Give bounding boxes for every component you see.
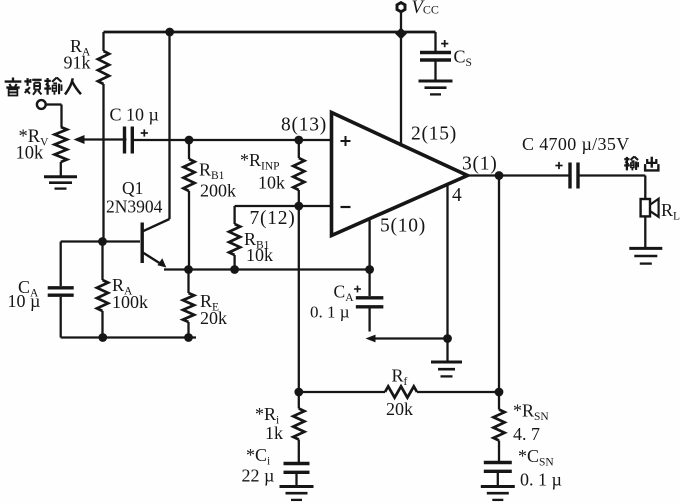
- label 音频输入 audio input: [5, 78, 81, 96]
- label Rf 20k: [386, 399, 413, 419]
- label pin 4: [452, 185, 462, 206]
- node base junction: [98, 237, 107, 246]
- ground below RV: [44, 177, 77, 189]
- resistor *RINP 10k: [293, 140, 304, 206]
- label pin 2(15): [411, 124, 457, 145]
- label Q1: [122, 178, 143, 198]
- svg-text:VCC: VCC: [412, 0, 439, 18]
- label pin 5(10): [380, 216, 426, 237]
- label pin 3(1): [462, 154, 498, 175]
- resistor *RSN 4.7: [493, 392, 504, 461]
- svg-text:C 10 µ: C 10 µ: [110, 105, 159, 125]
- resistor RV 10k: [55, 127, 67, 162]
- wire input to RV: [46, 105, 62, 128]
- label *RV: [19, 127, 50, 149]
- resistor RB1 200k: [183, 140, 194, 270]
- svg-text:10k: 10k: [246, 245, 273, 265]
- label RB1 10k: [244, 229, 270, 252]
- node bottom row RE junction: [184, 333, 193, 342]
- capacitor CS: [420, 53, 451, 61]
- resistor *Ri 1k: [293, 392, 304, 462]
- wire pin 4: [446, 184, 448, 339]
- svg-text:7(12): 7(12): [250, 208, 296, 229]
- label CS: [454, 47, 472, 70]
- op-amp + sign: [341, 136, 351, 146]
- resistor RB1 10k: [229, 206, 240, 270]
- ground below RL: [629, 248, 662, 263]
- svg-text:Q1: Q1: [122, 178, 143, 198]
- label RA 100k: [112, 275, 133, 298]
- plus C: [141, 129, 148, 136]
- wire inverting input: [235, 205, 332, 207]
- label Rf: [392, 366, 408, 389]
- node output 3(1): [495, 171, 504, 180]
- svg-text:2N3904: 2N3904: [106, 197, 163, 217]
- label VCC: [412, 0, 439, 18]
- wire pin 5(10): [368, 219, 370, 270]
- wire output: [468, 174, 570, 176]
- wire C to op-amp + input: [133, 139, 332, 141]
- plus CA-0.1: [354, 286, 361, 293]
- capacitor C 10µ: [125, 127, 133, 154]
- wire to mid ground: [446, 339, 448, 362]
- wire Q1 base: [61, 240, 140, 242]
- capacitor CA 10µ: [48, 288, 74, 295]
- label 100k: [112, 292, 148, 312]
- svg-text:10 µ: 10 µ: [8, 291, 41, 311]
- svg-text:*Ci: *Ci: [246, 445, 270, 468]
- svg-text:8(13): 8(13): [281, 115, 327, 136]
- label Ci 22µ: [242, 466, 275, 486]
- label *Ri: [255, 404, 279, 427]
- svg-text:91k: 91k: [64, 53, 91, 73]
- svg-text:22 µ: 22 µ: [242, 466, 275, 486]
- label 2N3904: [106, 197, 163, 217]
- label RV 10k: [16, 144, 45, 164]
- label RSN 4.7: [513, 424, 540, 444]
- resistor RA 91k: [98, 32, 109, 242]
- label RA: [70, 36, 91, 59]
- svg-text:100k: 100k: [112, 292, 148, 312]
- wire CS to ground: [434, 62, 436, 81]
- capacitor CA 0.1µ: [356, 270, 384, 332]
- wire top supply rail: [104, 31, 436, 34]
- label CSN 0.1µ: [520, 470, 562, 490]
- ground below CSN: [481, 487, 515, 500]
- svg-text:0. 1 µ: 0. 1 µ: [310, 302, 350, 321]
- svg-text:0. 1 µ: 0. 1 µ: [520, 470, 562, 490]
- label 91k: [64, 53, 91, 73]
- wire Q1 collector: [143, 32, 170, 231]
- wire VCC to pin 2(15): [400, 34, 402, 147]
- capacitor *CSN 0.1µ: [484, 463, 512, 486]
- label 200k: [200, 181, 236, 201]
- label *RINP: [240, 150, 280, 173]
- capacitor C 4700µ output: [570, 163, 578, 189]
- svg-text:3(1): 3(1): [462, 154, 498, 175]
- wire RV to ground: [60, 162, 62, 176]
- node 8(13): [294, 136, 303, 145]
- node RB1-10k bottom junction: [230, 265, 239, 274]
- label 输出 output: [624, 157, 658, 171]
- label RINP 10k: [258, 173, 285, 193]
- node RB1-200k top junction: [185, 136, 194, 145]
- label 0.1µ: [310, 302, 350, 321]
- svg-text:200k: 200k: [200, 181, 236, 201]
- label RB1 200k: [199, 160, 225, 183]
- ground mid: [431, 362, 462, 376]
- svg-text:2(15): 2(15): [411, 124, 457, 145]
- label 10k: [246, 245, 273, 265]
- label 10µ: [8, 291, 41, 311]
- resistor RE 20k: [183, 270, 194, 338]
- wire 7(12) node down: [298, 206, 300, 392]
- resistor Rf 20k: [299, 386, 499, 397]
- label pin 7(12): [250, 208, 296, 229]
- plus C4700: [555, 162, 562, 169]
- wire CA to bottom row: [60, 297, 62, 338]
- resistor RA 100k: [97, 242, 108, 338]
- svg-text:C 4700 µ/35V: C 4700 µ/35V: [522, 134, 630, 154]
- op-amp - sign: [341, 206, 351, 208]
- svg-text:10k: 10k: [258, 173, 285, 193]
- label C 4700µ/35V: [522, 134, 630, 154]
- label RL: [661, 200, 680, 223]
- power VCC terminal: [397, 3, 405, 32]
- node collector-rail junction: [165, 28, 174, 37]
- wire RL to ground: [644, 216, 646, 247]
- op-amp U1: [332, 113, 468, 236]
- svg-text:5(10): 5(10): [380, 216, 426, 237]
- svg-text:4: 4: [452, 185, 462, 206]
- ground below Ci: [280, 487, 314, 500]
- label CA 0.1µ: [334, 282, 355, 305]
- wire CS branch: [434, 32, 436, 51]
- wire base row left to CA: [60, 242, 62, 287]
- speaker RL: [641, 199, 659, 217]
- wire CA bottom row: [366, 335, 448, 343]
- label Ri 1k: [265, 423, 283, 443]
- node Rf right junction: [495, 388, 504, 397]
- label pin 8(13): [281, 115, 327, 136]
- label RE: [200, 291, 219, 314]
- node bottom row RA junction: [98, 333, 107, 342]
- svg-text:10k: 10k: [16, 144, 45, 164]
- svg-text:20k: 20k: [386, 399, 413, 419]
- node Rf left junction: [294, 388, 303, 397]
- svg-text:4. 7: 4. 7: [513, 424, 540, 444]
- wire bottom row: [61, 336, 196, 338]
- node inverting input 7(12): [294, 202, 303, 211]
- label RE 20k: [200, 308, 227, 328]
- node VCC-rail junction: [395, 28, 407, 40]
- transistor Q1 2N3904: [142, 223, 166, 268]
- capacitor *Ci 22µ: [284, 464, 310, 486]
- label CA 10µ: [18, 277, 39, 300]
- wire emitter row: [164, 268, 370, 270]
- ground below CS: [419, 81, 453, 94]
- terminal input: [37, 100, 46, 109]
- plus CS: [441, 40, 448, 47]
- svg-text:20k: 20k: [200, 308, 227, 328]
- wire output right: [578, 176, 645, 200]
- node emitter row right junction: [365, 265, 374, 274]
- label *CSN: [518, 446, 554, 469]
- label *RSN: [513, 401, 549, 424]
- wiper arrow RV: [74, 135, 127, 144]
- wire output to Rf row: [498, 176, 500, 393]
- svg-text:1k: 1k: [265, 423, 283, 443]
- label *Ci: [246, 445, 270, 468]
- node emitter-RE junction: [184, 265, 193, 274]
- label C 10µ: [110, 105, 159, 125]
- node pin4-ground junction: [443, 334, 452, 343]
